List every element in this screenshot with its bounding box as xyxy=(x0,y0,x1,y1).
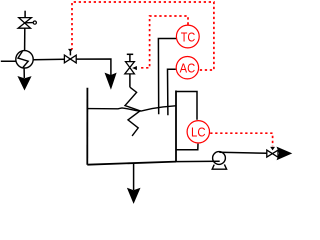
liquid surface xyxy=(87,106,175,111)
arrow product outlet xyxy=(277,148,291,160)
signal line TC to V3 xyxy=(139,16,189,68)
pump P1 xyxy=(212,152,226,170)
steam coil zigzag xyxy=(125,87,140,136)
wire pump discharge xyxy=(219,152,267,153)
signal line LC to V4 xyxy=(210,133,272,146)
wire bottoms outlet down xyxy=(133,163,135,191)
wire steam valve stem down xyxy=(129,74,131,87)
TC sensor dip line xyxy=(158,39,176,115)
wire exchanger to feed valve xyxy=(33,58,64,61)
svg-text:TC: TC xyxy=(181,29,196,44)
LC bottom tap line xyxy=(176,144,198,150)
arrow coolant outlet down xyxy=(18,77,30,90)
wire feed valve to vessel xyxy=(76,59,111,75)
wire exchanger top stem xyxy=(24,28,26,50)
wire feed line into exchanger xyxy=(1,60,16,62)
controller LC xyxy=(187,121,209,143)
valve V1 coolant valve xyxy=(18,11,36,29)
controller AC xyxy=(176,56,198,78)
arrow feed into vessel xyxy=(105,74,115,89)
controller TC xyxy=(176,25,199,48)
signal arrowhead onto V2 xyxy=(68,49,73,52)
LC top tap line xyxy=(176,92,197,120)
heat exchanger E1 xyxy=(16,51,33,68)
valve V4 product valve xyxy=(267,150,278,157)
signal line AC to V2 xyxy=(72,2,214,70)
svg-text:LC: LC xyxy=(191,125,206,140)
vessel tank xyxy=(87,88,176,165)
valve V3 steam valve with actuator xyxy=(125,54,135,74)
signal arrowhead onto V3 xyxy=(132,66,137,70)
wire vessel bottoms to pump xyxy=(176,160,220,162)
wire exchanger bottom stem xyxy=(23,68,25,78)
AC sensor dip line xyxy=(168,69,176,115)
svg-text:AC: AC xyxy=(180,60,196,75)
arrow bottoms product xyxy=(128,189,140,203)
valve V2 feed valve xyxy=(64,51,76,63)
signal arrowhead onto V4 xyxy=(270,147,275,151)
